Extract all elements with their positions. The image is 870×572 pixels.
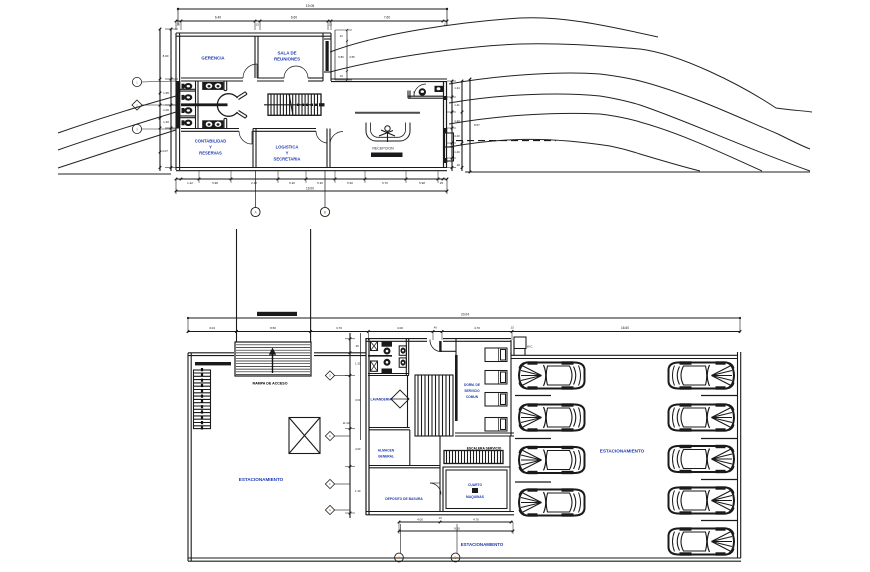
svg-text:5.98: 5.98 — [212, 181, 218, 185]
svg-text:F: F — [329, 482, 331, 486]
svg-text:4.55: 4.55 — [349, 55, 355, 59]
svg-text:.40: .40 — [433, 326, 437, 330]
svg-text:4.00: 4.00 — [397, 326, 403, 330]
svg-text:4.40: 4.40 — [454, 134, 460, 138]
svg-text:.25: .25 — [439, 181, 443, 185]
svg-text:.15: .15 — [255, 23, 259, 27]
svg-text:CUARTO: CUARTO — [468, 483, 482, 487]
svg-text:4.70: 4.70 — [474, 326, 480, 330]
svg-text:.40: .40 — [456, 163, 460, 167]
svg-text:16.60: 16.60 — [621, 326, 629, 330]
svg-text:20.04: 20.04 — [461, 313, 469, 317]
svg-text:1.30: 1.30 — [355, 362, 361, 366]
svg-text:B: B — [454, 556, 456, 560]
svg-text:ESTACIONAMIENTO: ESTACIONAMIENTO — [239, 477, 284, 482]
svg-text:RAMPA DE ACCESO: RAMPA DE ACCESO — [252, 382, 287, 386]
svg-text:SERVICIO: SERVICIO — [464, 389, 480, 393]
svg-text:DEPOSITO DE BASURA: DEPOSITO DE BASURA — [385, 497, 423, 501]
svg-text:CONTABILIDAD: CONTABILIDAD — [195, 139, 227, 144]
svg-text:.15: .15 — [510, 326, 514, 330]
svg-text:5.30: 5.30 — [317, 181, 323, 185]
svg-text:E: E — [329, 434, 331, 438]
svg-text:1.20: 1.20 — [454, 150, 460, 154]
svg-text:.15: .15 — [443, 23, 447, 27]
svg-text:Y: Y — [209, 145, 212, 150]
svg-text:5.30: 5.30 — [347, 181, 353, 185]
svg-text:1.42: 1.42 — [187, 181, 193, 185]
svg-text:REUNIONES: REUNIONES — [274, 57, 300, 62]
svg-text:1.40: 1.40 — [163, 120, 169, 124]
svg-text:1.24: 1.24 — [454, 86, 460, 90]
svg-text:SALA DE: SALA DE — [277, 51, 296, 56]
svg-text:4.07: 4.07 — [162, 149, 168, 153]
svg-text:11.40: 11.40 — [343, 421, 350, 425]
svg-text:.15: .15 — [176, 23, 180, 27]
svg-text:5.80: 5.80 — [338, 55, 344, 59]
svg-text:LOGISTICA: LOGISTICA — [276, 145, 299, 150]
svg-text:DORM. DE: DORM. DE — [464, 383, 480, 387]
svg-text:Y: Y — [286, 151, 289, 156]
svg-text:2.48: 2.48 — [251, 181, 257, 185]
svg-text:6.40: 6.40 — [215, 16, 221, 20]
svg-text:8.50: 8.50 — [270, 326, 276, 330]
svg-text:ALMACEN: ALMACEN — [378, 449, 395, 453]
svg-text:8.00: 8.00 — [163, 54, 169, 58]
svg-text:.36: .36 — [355, 344, 359, 348]
svg-text:.15: .15 — [438, 517, 442, 520]
svg-text:3.04: 3.04 — [209, 326, 215, 330]
svg-text:.42: .42 — [339, 34, 343, 38]
svg-text:4.60: 4.60 — [355, 447, 361, 451]
svg-text:3.00: 3.00 — [355, 398, 361, 402]
svg-text:8.57: 8.57 — [474, 123, 480, 127]
svg-text:5.98: 5.98 — [419, 181, 425, 185]
svg-text:1.40: 1.40 — [355, 489, 361, 493]
svg-text:19.05: 19.05 — [306, 4, 315, 8]
svg-text:1.20: 1.20 — [454, 119, 460, 123]
svg-text:LAVANDERIA: LAVANDERIA — [370, 398, 392, 402]
svg-text:ESCALERA SERVICIO: ESCALERA SERVICIO — [467, 446, 502, 450]
svg-text:GERENCIA: GERENCIA — [201, 56, 225, 61]
svg-text:RECEPCION: RECEPCION — [372, 147, 394, 151]
svg-text:MAQUINAS: MAQUINAS — [466, 495, 485, 499]
svg-text:5.70: 5.70 — [382, 181, 388, 185]
svg-text:4.70: 4.70 — [473, 518, 479, 522]
svg-text:W.C.: W.C. — [527, 345, 533, 349]
svg-text:1.41: 1.41 — [454, 103, 460, 107]
svg-text:3.70: 3.70 — [336, 326, 342, 330]
svg-text:6.60: 6.60 — [291, 16, 297, 20]
svg-text:SECRETARIA: SECRETARIA — [274, 157, 301, 162]
svg-text:5.30: 5.30 — [289, 181, 295, 185]
svg-text:GENERAL: GENERAL — [378, 455, 394, 459]
svg-text:4.00: 4.00 — [417, 518, 423, 522]
svg-text:1.00: 1.00 — [163, 108, 169, 112]
svg-text:7.60: 7.60 — [384, 16, 390, 20]
svg-text:.15: .15 — [328, 23, 332, 27]
svg-text:ESTACIONAMIENTO: ESTACIONAMIENTO — [600, 449, 645, 454]
svg-text:G: G — [329, 508, 331, 512]
svg-text:COMUN: COMUN — [466, 395, 479, 399]
svg-text:RESERVAS: RESERVAS — [199, 151, 222, 156]
svg-text:.15: .15 — [339, 74, 343, 78]
svg-text:ESTACIONAMIENTO: ESTACIONAMIENTO — [461, 542, 504, 547]
svg-text:1.95: 1.95 — [163, 91, 169, 95]
svg-text:19.00: 19.00 — [306, 186, 314, 190]
svg-text:D: D — [329, 374, 331, 378]
